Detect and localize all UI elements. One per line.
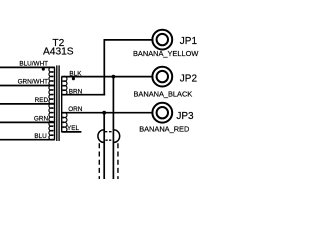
wire BLK (secondary) to JP2 bbox=[61, 76, 152, 78]
svg-text:BLU: BLU bbox=[34, 133, 47, 140]
transformer T2 primary phase dot bbox=[42, 68, 45, 71]
wire plug leg left (vertical V3 from ORN junction) bbox=[103, 113, 105, 179]
wire JP1 horizontal bbox=[104, 39, 153, 41]
svg-text:GRN: GRN bbox=[34, 115, 49, 122]
wire ORN (secondary) to JP3 bbox=[61, 112, 152, 114]
svg-text:JP2: JP2 bbox=[180, 74, 198, 85]
wire YEL (secondary stub) bbox=[61, 131, 81, 133]
transformer T2 primary winding bbox=[49, 67, 53, 140]
junction dot BLK/V2 bbox=[112, 75, 116, 79]
svg-text:BANANA_BLACK: BANANA_BLACK bbox=[134, 90, 193, 99]
svg-text:ORN: ORN bbox=[68, 106, 83, 113]
plug bottom dashed edge bbox=[105, 139, 111, 141]
transformer T2 core (left line) bbox=[56, 65, 58, 141]
wire BRN (secondary) bbox=[61, 94, 105, 96]
wire GRN/WHT (primary tap) bbox=[0, 85, 55, 87]
cable loop left (around V3) bbox=[98, 130, 104, 142]
connector JP2 outer ring bbox=[152, 67, 172, 87]
wire RED (primary tap) bbox=[0, 103, 55, 105]
connector JP3 inner ring bbox=[157, 107, 168, 118]
cable outline dashed right bbox=[117, 143, 119, 179]
transformer T2 secondary winding 1 phase dot bbox=[72, 77, 75, 80]
transformer T2 primary winding spine bbox=[54, 67, 56, 139]
wire GRN (primary tap) bbox=[0, 121, 55, 123]
svg-text:BLK: BLK bbox=[69, 70, 82, 77]
connector JP2 inner ring bbox=[157, 71, 168, 82]
svg-text:JP1: JP1 bbox=[180, 36, 198, 47]
wire BLU/WHT (primary pin 1) bbox=[0, 66, 55, 68]
wire BRN riser to JP1 (vertical V1) bbox=[103, 40, 105, 96]
cable loop right (around V2) bbox=[113, 130, 119, 142]
svg-text:JP3: JP3 bbox=[176, 111, 194, 122]
connector JP1 outer ring bbox=[152, 30, 172, 50]
wire BLU (primary pin 2) bbox=[0, 139, 55, 141]
wire plug leg right (vertical V2 from BLK junction) bbox=[112, 77, 114, 179]
cable outline dashed left bbox=[98, 143, 100, 179]
svg-text:A431S: A431S bbox=[43, 47, 74, 58]
transformer T2 secondary winding 2 (ORN-YEL) bbox=[63, 113, 67, 132]
svg-text:GRN/WHT: GRN/WHT bbox=[18, 78, 49, 85]
svg-text:BRN: BRN bbox=[69, 88, 83, 95]
svg-text:RED: RED bbox=[35, 97, 49, 104]
svg-text:YEL: YEL bbox=[67, 125, 80, 132]
transformer T2 secondary winding 1 (BLK-BRN) bbox=[63, 76, 67, 95]
svg-text:BANANA_YELLOW: BANANA_YELLOW bbox=[133, 49, 198, 58]
transformer T2 core (right line) bbox=[58, 65, 60, 141]
svg-text:BANANA_RED: BANANA_RED bbox=[139, 125, 189, 134]
svg-text:BLU/WHT: BLU/WHT bbox=[19, 60, 48, 67]
transformer T2 secondary winding spine bbox=[61, 77, 63, 132]
transformer T2 designator label bbox=[43, 38, 74, 58]
plug top dashed edge bbox=[105, 131, 112, 133]
connector JP3 outer ring bbox=[152, 103, 172, 123]
junction dot ORN/V3 bbox=[102, 111, 106, 115]
connector JP1 inner ring bbox=[157, 34, 168, 45]
